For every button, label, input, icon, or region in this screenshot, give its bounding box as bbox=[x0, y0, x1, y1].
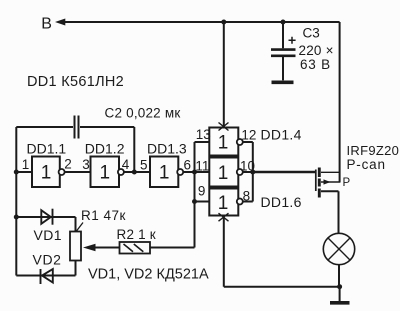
svg-text:11: 11 bbox=[195, 159, 209, 174]
x mark top bbox=[219, 123, 229, 131]
svg-text:DD1.4: DD1.4 bbox=[261, 127, 302, 143]
wire stub pin 10 bbox=[243, 171, 253, 173]
leader R1 bbox=[77, 223, 84, 232]
wire left feedback vertical bbox=[15, 127, 17, 276]
wire bottom rail bbox=[224, 286, 340, 288]
inverter DD1.6 bbox=[209, 189, 243, 216]
lamp HL1 bbox=[323, 233, 354, 264]
wire DD1.2 out to DD1.3 in bbox=[124, 171, 150, 173]
wire body lead bbox=[321, 181, 340, 183]
wire right rail down to MOSFET source bbox=[339, 22, 341, 182]
svg-text:C3: C3 bbox=[303, 26, 320, 41]
svg-text:DD1.2: DD1.2 bbox=[85, 141, 125, 157]
wire DD1.3 out to input bus bbox=[183, 171, 194, 173]
resistor R2 bbox=[120, 242, 195, 254]
inverter DD1.1 bbox=[32, 157, 65, 188]
transistor VT1 IRF9Z20 bbox=[253, 168, 341, 234]
ground bbox=[330, 301, 350, 305]
svg-text:2: 2 bbox=[64, 157, 72, 172]
svg-text:220 ×: 220 × bbox=[299, 43, 334, 58]
diode VD2 bbox=[16, 269, 75, 284]
svg-text:5: 5 bbox=[140, 158, 148, 173]
svg-text:12: 12 bbox=[241, 128, 256, 143]
wire stub pin 11 bbox=[195, 171, 210, 173]
junction bottom node bbox=[337, 284, 342, 289]
svg-text:DD1.3: DD1.3 bbox=[147, 141, 187, 157]
gate bar bbox=[315, 170, 317, 192]
wire stub pin 8 bbox=[243, 201, 253, 203]
wire drain lead bbox=[321, 191, 339, 233]
svg-text:1: 1 bbox=[218, 193, 229, 214]
junction top rail to C3 bbox=[281, 20, 286, 25]
wire gate lead bbox=[253, 171, 315, 173]
svg-text:R2 1 к: R2 1 к bbox=[117, 227, 156, 242]
inverter DD1.3 bbox=[150, 157, 183, 188]
svg-text:6: 6 bbox=[184, 158, 192, 173]
junction bus / pin9 stub bbox=[192, 199, 197, 204]
svg-text:VD1: VD1 bbox=[34, 227, 62, 243]
svg-text:DD1.1: DD1.1 bbox=[27, 141, 67, 157]
capacitor C3 bbox=[271, 22, 296, 80]
svg-text:1: 1 bbox=[218, 163, 229, 184]
inverter DD1.4 bbox=[209, 128, 243, 156]
svg-text:1: 1 bbox=[22, 157, 30, 172]
svg-text:P-can: P-can bbox=[347, 157, 386, 172]
channel segment middle bbox=[318, 179, 321, 187]
junction bus / DD1.3 out bbox=[192, 170, 197, 175]
svg-text:1: 1 bbox=[159, 163, 170, 184]
x mark bottom bbox=[219, 213, 229, 221]
ground bar under C3 bbox=[272, 81, 294, 85]
svg-text:63 В: 63 В bbox=[300, 57, 331, 72]
channel segment bottom bbox=[318, 189, 321, 198]
diode VD1 bbox=[16, 209, 75, 225]
channel segment top bbox=[318, 168, 321, 178]
svg-text:3: 3 bbox=[82, 157, 90, 172]
inverter DD1.5 bbox=[209, 158, 243, 187]
junction output bus / gate wire bbox=[250, 170, 255, 175]
svg-text:13: 13 bbox=[196, 127, 211, 142]
wire stub pin 13 bbox=[195, 141, 210, 143]
wire DD1.1 out to DD1.2 in bbox=[65, 171, 91, 173]
svg-text:VD1, VD2 КД521А: VD1, VD2 КД521А bbox=[88, 267, 209, 283]
junction top rail to gate stack bbox=[221, 20, 226, 25]
capacitor C2 bbox=[16, 116, 134, 139]
arrowhead to B bbox=[55, 19, 65, 26]
svg-text:P: P bbox=[343, 177, 351, 189]
wire source lead bbox=[321, 171, 340, 173]
wire C2 drop to pin4/5 node bbox=[133, 127, 135, 172]
wiper arrow bbox=[95, 247, 120, 249]
svg-text:9: 9 bbox=[198, 184, 206, 199]
wire lamp to bottom node bbox=[338, 265, 340, 287]
wire top supply rail bbox=[64, 21, 340, 23]
svg-text:В: В bbox=[41, 16, 52, 33]
inverter DD1.2 bbox=[91, 157, 124, 188]
wire supply drop to gate stack bbox=[223, 22, 225, 127]
wire gate stack bottom drop bbox=[223, 216, 225, 287]
svg-text:IRF9Z20: IRF9Z20 bbox=[347, 143, 400, 158]
svg-text:DD1.6: DD1.6 bbox=[261, 194, 302, 210]
svg-text:1: 1 bbox=[41, 163, 52, 184]
wire input bus bbox=[194, 142, 196, 248]
wire ground stub bbox=[339, 287, 341, 301]
junction pin1 node bbox=[14, 170, 19, 175]
wire DD1.1 input bbox=[16, 171, 32, 173]
svg-text:VD2: VD2 bbox=[33, 252, 62, 268]
body arrow bbox=[324, 179, 331, 184]
junction left rail / VD1 bbox=[14, 215, 19, 220]
junction pin4/5 node bbox=[132, 170, 137, 175]
svg-text:4: 4 bbox=[122, 157, 130, 172]
svg-text:C2 0,022 мк: C2 0,022 мк bbox=[105, 106, 181, 121]
wire stub pin 9 bbox=[195, 201, 210, 203]
svg-text:R1 47к: R1 47к bbox=[81, 208, 126, 223]
wire stub pin 12 bbox=[243, 141, 253, 143]
svg-text:1: 1 bbox=[100, 163, 111, 184]
svg-text:DD1 К561ЛН2: DD1 К561ЛН2 bbox=[27, 74, 124, 90]
potentiometer R1 bbox=[70, 217, 120, 276]
wire output bus bbox=[252, 142, 254, 202]
svg-text:1: 1 bbox=[218, 133, 229, 154]
